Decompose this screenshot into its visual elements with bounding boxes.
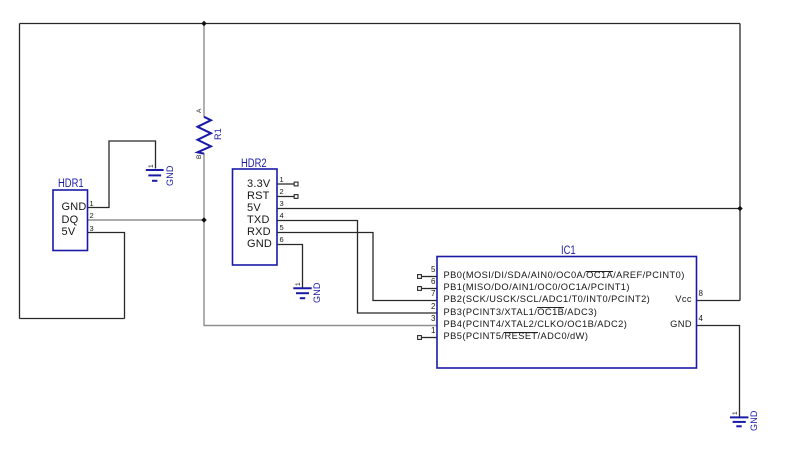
wire IC1 pin1 stub [422,337,438,339]
IC1 pin label PB0 [444,270,685,280]
wire IC1 Vcc stub [697,300,741,302]
node junction DQ [201,217,206,222]
IC1 pin number 8 [699,289,703,298]
wire bottom from left border to HDR1 5V riser [20,318,125,320]
HDR2 pin name 3.3V [247,178,270,190]
terminal square HDR2 pin1 [294,182,298,186]
wire HDR2 pin5 RXD to IC1 PB2 [277,233,437,301]
connector HDR2 body [233,169,278,265]
node junction 5V right rail [737,206,742,211]
op-amp IC1 label [561,245,579,257]
HDR2 pin number 6 [280,235,284,244]
HDR2 pin name 5V [247,202,261,214]
HDR2 pin number 3 [280,199,284,208]
IC1 pin number 6 [400,277,436,286]
ground GND label near HDR2 [312,282,322,303]
IC1 pin name Vcc [642,294,692,304]
HDR2 pin name GND [247,238,272,250]
wire left border down [19,24,21,319]
wire 5V top rail [20,23,741,25]
IC1 pin number 2 [400,302,436,311]
connector HDR1 body [53,190,88,251]
ground symbol near HDR1 [146,170,164,181]
wire HDR1 pin3 5V riser [88,233,125,319]
IC1 pin label PB2 [444,294,651,304]
IC1 pin label PB5 [444,331,589,341]
ground pin 1 near HDR2 [295,282,302,286]
wire R1 bottom lead / DQ net down to IC1 PB4 (gray) [204,153,437,326]
ground GND label near HDR1 [165,165,175,186]
wire HDR2 pin6 to GND symbol [277,245,303,288]
connector HDR1 label [58,178,89,190]
wire IC1 pin6 stub [422,288,438,290]
HDR1 pin name DQ [62,214,79,226]
HDR2 pin number 2 [280,187,284,196]
ground symbol near HDR2 [293,288,311,298]
wire IC1 pin4 GND to GND symbol [697,326,740,418]
wire HDR2 pin4 TXD to IC1 PB3 [277,221,437,314]
wire HDR1 pin1 to GND symbol [88,141,156,208]
HDR2 pin name TXD [247,214,270,226]
resistor R1 zigzag [198,117,212,154]
HDR2 pin name RST [247,190,270,202]
HDR2 pin number 5 [280,223,284,232]
IC1 pin number 7 [400,289,436,298]
HDR1 pin number 1 [90,199,94,208]
ground GND label near IC1 [749,410,759,431]
resistor R1 label [213,128,223,140]
IC1 pin number 5 [400,265,436,274]
IC1 pin name GND [642,319,692,329]
op-amp IC1 body [437,257,697,369]
IC1 pin number 1 [400,326,436,335]
wire HDR2 pin1 stub [277,183,294,185]
ground symbol near IC1 [730,417,748,426]
HDR2 pin number 1 [280,175,284,184]
IC1 pin number 3 [400,314,436,323]
wire HDR2 pin2 stub [277,196,294,198]
connector HDR2 label [241,158,272,170]
node junction top rail / R1 [201,21,206,26]
resistor R1 terminal letter A [196,109,203,113]
terminal square IC1 pin5 [418,275,422,279]
wire IC1 pin5 stub [422,276,438,278]
HDR1 pin number 2 [90,211,94,220]
IC1 pin label PB1 [444,282,630,292]
resistor R1 terminal letter B [196,154,203,158]
ground pin 1 near IC1 [732,411,739,415]
IC1 pin label PB3 [444,307,598,317]
terminal square IC1 pin6 [418,287,422,291]
terminal square IC1 pin1 [418,336,422,340]
IC1 pin number 4 [699,314,703,323]
IC1 pin label PB4 [444,319,628,329]
HDR1 pin name 5V [62,226,76,238]
wire HDR2 pin3 5V [277,208,740,210]
wire right border down to Vcc [739,24,741,301]
wire HDR1 pin2 DQ (gray) [88,219,205,221]
ground pin 1 near HDR1 [148,164,155,168]
HDR1 pin name GND [62,201,87,213]
terminal square HDR2 pin2 [294,195,298,199]
HDR2 pin name RXD [247,226,271,238]
wire R1 top lead (gray) [203,24,205,118]
HDR1 pin number 3 [90,224,94,233]
HDR2 pin number 4 [280,211,284,220]
